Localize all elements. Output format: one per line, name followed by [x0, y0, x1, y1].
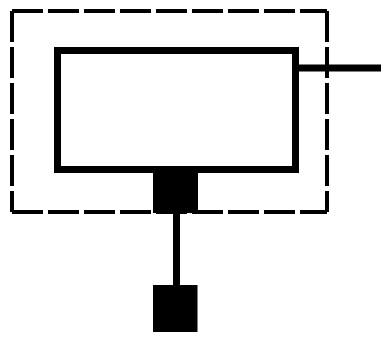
dashed enclosure top edge [12, 9, 327, 13]
dashed enclosure left edge [10, 11, 14, 212]
stem wire [173, 213, 180, 285]
dashed enclosure right edge [325, 11, 329, 212]
ground pad square [153, 285, 198, 332]
dashed enclosure bottom edge [12, 210, 327, 214]
right lead wire [295, 65, 381, 72]
bottom terminal pad [153, 166, 198, 213]
component body rectangle [58, 51, 296, 170]
